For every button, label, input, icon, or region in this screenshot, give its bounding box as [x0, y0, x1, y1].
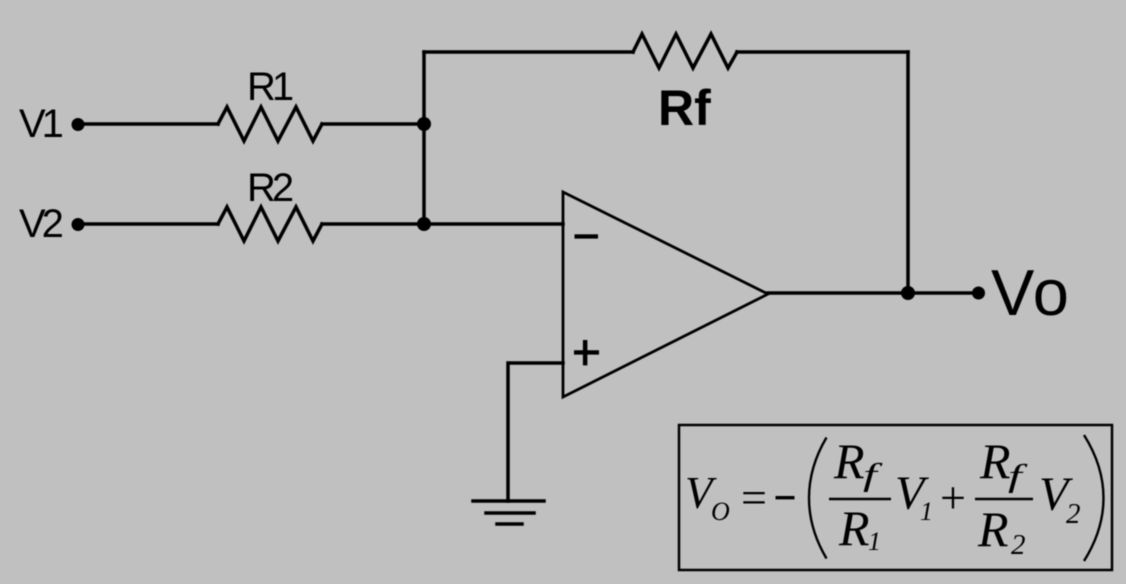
wire V1 to R1 — [80, 122, 218, 126]
terminal dot Vo — [972, 287, 985, 300]
wire top feedback left — [424, 50, 633, 54]
svg-text:V1: V1 — [19, 102, 63, 146]
svg-text:1: 1 — [920, 497, 933, 526]
wire node A to node B vertical — [422, 52, 426, 224]
svg-text:1: 1 — [868, 527, 881, 556]
wire top feedback right — [737, 50, 908, 54]
svg-text:R: R — [979, 433, 1011, 489]
wire node B to op-amp inverting input — [424, 222, 563, 226]
op-amp U1 — [563, 192, 768, 397]
svg-text:O: O — [711, 497, 730, 526]
terminal dot V2 — [72, 218, 85, 231]
ground bar 2 — [486, 511, 534, 515]
ground bar 3 — [497, 522, 522, 526]
output junction dot — [901, 286, 915, 300]
formula box border — [679, 425, 1112, 570]
svg-text:R: R — [977, 501, 1009, 557]
svg-text:Vo: Vo — [991, 256, 1071, 329]
wire feedback vertical to output — [906, 52, 910, 293]
formula big right paren — [1084, 435, 1104, 561]
formula minus sign — [776, 496, 795, 499]
node A junction dot — [417, 117, 431, 131]
wire R1 to node A — [322, 122, 424, 126]
op-amp plus sign — [574, 340, 599, 365]
wire V2 to R2 — [80, 222, 218, 226]
formula fraction bar 1 — [829, 498, 891, 501]
svg-text:2: 2 — [1011, 529, 1026, 561]
wire op-amp non-inverting input — [508, 363, 563, 501]
formula fraction bar 2 — [975, 498, 1033, 501]
svg-text:+: + — [940, 472, 966, 523]
op-amp minus sign — [575, 234, 599, 238]
ground bar 1 — [473, 499, 544, 503]
svg-text:R: R — [838, 500, 870, 556]
formula big left paren — [809, 438, 827, 559]
terminal dot V1 — [72, 118, 85, 131]
node B junction dot — [417, 217, 431, 231]
svg-text:=: = — [741, 472, 767, 523]
svg-text:Rf: Rf — [658, 80, 711, 136]
svg-text:R: R — [833, 433, 865, 489]
svg-text:2: 2 — [1066, 498, 1081, 530]
resistor R2 — [218, 207, 322, 241]
svg-text:R1: R1 — [247, 65, 293, 109]
resistor Rf — [633, 34, 737, 68]
wire R2 to node B — [322, 222, 424, 226]
svg-text:R2: R2 — [247, 166, 293, 210]
resistor R1 — [218, 107, 322, 141]
wire op-amp output to Vo — [768, 291, 978, 295]
svg-text:V2: V2 — [19, 202, 63, 246]
